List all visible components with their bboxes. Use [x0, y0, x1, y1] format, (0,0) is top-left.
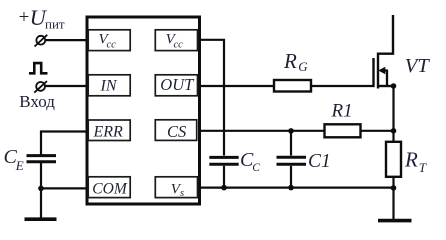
- wire source down to R1 node: [392, 86, 394, 131]
- node source junction: [391, 83, 397, 89]
- transistor VT channel bar: [377, 53, 379, 89]
- wire down to left ground: [40, 189, 42, 220]
- capacitor C1: [277, 157, 307, 164]
- wire CE bottom to COM node: [40, 163, 42, 189]
- svg-text:CS: CS: [167, 122, 186, 141]
- pin box ERR: [88, 120, 130, 141]
- capacitor CE: [27, 156, 57, 162]
- svg-text:OUT: OUT: [160, 75, 195, 94]
- wire C1 bottom to rail: [290, 166, 292, 189]
- node R1/source junction: [391, 128, 397, 134]
- transistor VT source lead: [378, 85, 394, 87]
- wire ERR elbow down to CE: [41, 132, 87, 155]
- node C1 top junction: [288, 128, 294, 134]
- terminal supply input: [35, 35, 48, 47]
- ground right: [378, 219, 412, 223]
- svg-text:G: G: [298, 59, 308, 74]
- node CE/COM junction: [38, 186, 44, 192]
- label CC: [240, 149, 260, 174]
- wire C1 top: [290, 131, 292, 156]
- svg-text:ERR: ERR: [93, 124, 124, 141]
- wire COM: [41, 187, 87, 189]
- wire Vcc right elbow down to CC: [200, 40, 225, 156]
- wire RT bottom to rail: [392, 177, 394, 188]
- svg-text:+: +: [19, 7, 30, 28]
- transistor VT drain lead: [378, 15, 393, 54]
- wire supply terminal to Vcc: [45, 39, 87, 41]
- wire R1 to source node: [361, 130, 394, 132]
- resistor R1: [325, 124, 361, 137]
- pin box Vs: [155, 177, 197, 199]
- svg-text:Вход: Вход: [19, 92, 55, 111]
- svg-text:R: R: [283, 49, 297, 73]
- wire OUT to RG: [200, 85, 275, 87]
- svg-text:R: R: [404, 148, 418, 172]
- terminal signal input: [34, 81, 47, 93]
- node C1/rail junction: [288, 185, 294, 191]
- pulse symbol: [29, 63, 48, 73]
- pin box Vcc (left, pin 1): [88, 30, 130, 51]
- pin box IN: [88, 75, 130, 96]
- wire rail node to right ground: [392, 188, 394, 220]
- svg-text:COM: COM: [92, 181, 128, 198]
- svg-text:cc: cc: [174, 40, 184, 51]
- label +Uпит: [19, 5, 65, 32]
- resistor RT: [386, 142, 401, 177]
- svg-text:C: C: [252, 162, 260, 174]
- svg-text:C1: C1: [308, 151, 331, 172]
- svg-text:пит: пит: [45, 17, 65, 32]
- label RT: [404, 148, 427, 176]
- svg-text:IN: IN: [100, 77, 118, 94]
- svg-text:s: s: [180, 188, 184, 199]
- transistor VT substrate arrow: [378, 67, 388, 86]
- pin box Vcc (right): [155, 30, 197, 51]
- wire input terminal to IN: [45, 85, 87, 87]
- transistor VT gate bar: [372, 58, 374, 87]
- svg-text:VT: VT: [405, 55, 431, 77]
- label CE: [4, 146, 24, 173]
- pin box COM: [88, 177, 130, 198]
- resistor RG: [274, 80, 311, 92]
- svg-text:R1: R1: [331, 101, 353, 122]
- label RG: [283, 49, 308, 74]
- wire CC bottom to rail: [223, 166, 225, 189]
- node RT/rail junction: [391, 185, 397, 191]
- svg-text:cc: cc: [107, 40, 117, 51]
- pin box OUT: [155, 75, 197, 96]
- node CC/rail junction: [221, 185, 227, 191]
- wire RG to gate: [311, 85, 374, 87]
- wire source node to RT top: [392, 131, 394, 142]
- pin box CS: [155, 120, 196, 141]
- wire Vs rail: [200, 187, 394, 189]
- ground left: [25, 217, 57, 221]
- capacitor CC: [209, 157, 238, 164]
- svg-text:T: T: [419, 160, 427, 175]
- wire CS to R1: [200, 130, 325, 132]
- svg-text:E: E: [15, 158, 24, 173]
- IC U1 outline: [87, 17, 200, 204]
